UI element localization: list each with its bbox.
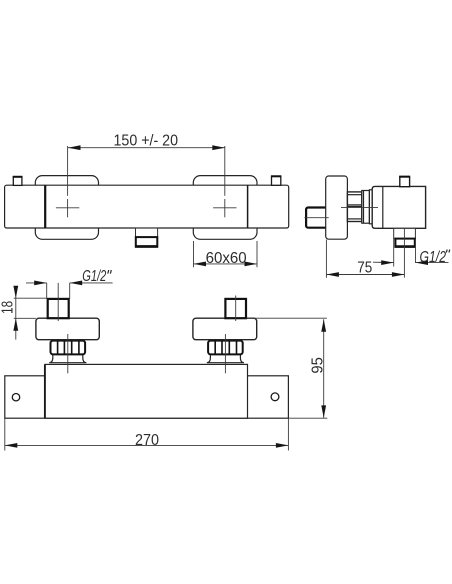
svg-text:18: 18	[0, 301, 17, 314]
svg-text:150 +/- 20: 150 +/- 20	[114, 133, 179, 150]
svg-text:95: 95	[309, 357, 326, 374]
svg-text:G1/2: G1/2	[82, 268, 106, 285]
svg-text:G1/2: G1/2	[420, 249, 447, 266]
svg-text:60x60: 60x60	[206, 250, 247, 267]
svg-text:270: 270	[135, 432, 159, 449]
svg-text:75: 75	[357, 259, 372, 276]
